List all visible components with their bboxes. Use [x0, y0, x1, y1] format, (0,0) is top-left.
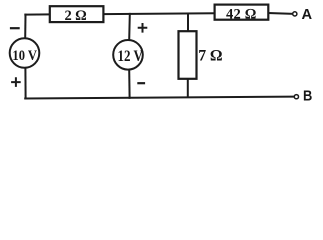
polarity minus of V1	[10, 27, 20, 29]
resistor R3 7-ohm box	[179, 31, 197, 79]
resistor R1 2-ohm box	[50, 6, 104, 22]
svg-text:12 V: 12 V	[117, 48, 143, 65]
node label B	[303, 89, 312, 105]
wire 7-ohm branch upper	[187, 14, 189, 32]
voltage source V2 12V circle	[113, 40, 143, 70]
value label 2 ohm	[64, 8, 86, 24]
terminal node B open circle	[294, 95, 298, 99]
polarity minus of V2	[137, 82, 145, 84]
svg-text:10 V: 10 V	[12, 47, 37, 63]
node label A	[302, 7, 313, 23]
polarity plus of V2	[138, 23, 148, 33]
svg-text:2 Ω: 2 Ω	[64, 8, 86, 24]
value label 42 ohm	[226, 6, 256, 22]
wire left branch upper	[24, 15, 26, 39]
polarity plus of V1	[11, 77, 21, 87]
wire top middle (2-ohm box to 42-ohm box)	[103, 12, 214, 15]
svg-text:7 Ω: 7 Ω	[198, 47, 222, 64]
wire top right (42-ohm box to terminal A)	[268, 12, 293, 15]
svg-text:A: A	[302, 7, 313, 23]
value label 12 V	[117, 48, 143, 65]
voltage source V1 10V circle	[10, 38, 40, 68]
wire 7-ohm branch lower	[187, 79, 189, 97]
terminal node A open circle	[293, 12, 297, 16]
svg-text:B: B	[303, 89, 312, 105]
value label 10 V	[12, 47, 37, 63]
wire 12V branch upper	[128, 14, 131, 40]
wire 12V branch lower	[128, 70, 130, 98]
wire left branch lower	[24, 68, 26, 99]
wire bottom rail (to terminal B)	[25, 97, 293, 99]
resistor R2 42-ohm box	[215, 5, 269, 20]
wire top-left horizontal (corner to 2-ohm box)	[25, 13, 50, 15]
svg-text:42 Ω: 42 Ω	[226, 6, 256, 22]
value label 7 ohm	[198, 47, 222, 64]
